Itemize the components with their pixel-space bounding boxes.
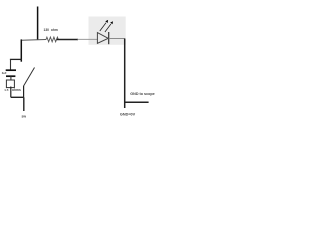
svg-text:130 ohm: 130 ohm <box>44 28 58 32</box>
svg-text:ohms: ohms <box>12 88 21 92</box>
svg-text:3uF: 3uF <box>2 71 7 75</box>
svg-text:GND=0V: GND=0V <box>120 113 136 117</box>
svg-text:GND to scope: GND to scope <box>130 92 154 96</box>
svg-text:sw: sw <box>22 114 27 118</box>
svg-text:1.5: 1.5 <box>4 88 9 92</box>
